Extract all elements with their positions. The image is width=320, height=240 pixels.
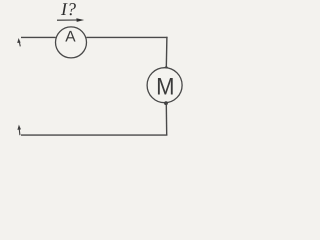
current direction arrow [57,18,84,22]
ammeter A1 [56,27,87,58]
junction dot (motor top) [164,66,168,70]
wire (bottom horizontal) [21,134,167,136]
wire (right vertical, motor down to bottom corner) [165,104,167,136]
motor M1 [147,68,182,103]
wire (top-left horizontal) [21,36,56,38]
junction dot (motor bottom) [164,101,168,105]
paper background [0,0,212,164]
svg-text:M: M [156,73,174,100]
wire (top horizontal, ammeter to corner) [86,36,167,38]
wire (right vertical, corner down to motor) [165,37,168,68]
terminal arrow (bottom-left lead) [17,125,21,136]
svg-text:I?: I? [60,0,76,19]
svg-text:A: A [65,29,76,46]
terminal arrow (top-left lead) [17,38,20,46]
